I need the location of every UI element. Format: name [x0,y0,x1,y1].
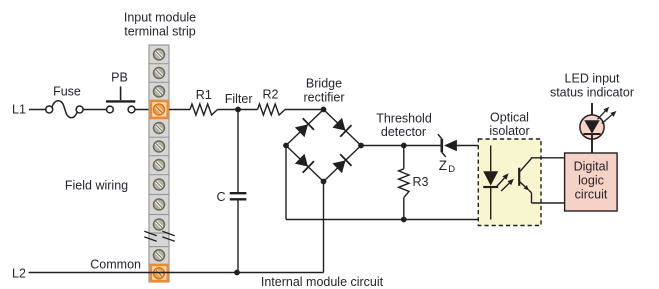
bridge diode D2 (top-right arm) [332,118,351,137]
svg-text:terminal strip: terminal strip [124,25,196,39]
wire PB to input terminal [135,109,159,111]
optical isolator dashed box [478,139,541,226]
svg-text:R1: R1 [196,88,212,102]
svg-text:rectifier: rectifier [304,90,345,104]
terminal strip break marks [144,231,174,241]
node R3 bottom junction [401,217,407,223]
svg-text:C: C [217,190,226,204]
svg-text:Threshold: Threshold [376,112,432,126]
node L2 [12,267,26,281]
svg-text:Digital: Digital [574,160,609,174]
svg-text:D: D [448,164,455,175]
svg-text:detector: detector [381,125,426,139]
wire emitter to logic box [532,202,565,204]
wire zener to opto LED [457,145,491,147]
svg-text:R3: R3 [413,175,429,189]
input terminal orange highlight [151,101,168,118]
svg-text:LED input: LED input [565,72,620,86]
terminal screw 5 [154,123,165,134]
node capacitor-common junction [234,270,240,276]
common terminal orange highlight [151,265,168,281]
bridge diode D3 (left-bottom arm) [295,154,314,173]
wire bridge bottom to L2 rail [323,182,325,273]
node R3 top junction [401,143,407,149]
phototransistor Q1 [519,158,531,203]
label Field wiring [65,179,128,193]
svg-text:status indicator: status indicator [550,86,634,100]
zener diode ZD [438,134,457,157]
label Common [90,258,141,272]
svg-text:Field wiring: Field wiring [65,179,128,193]
bridge node bottom [321,179,327,185]
bridge node top [321,107,327,113]
terminal screw 11 [154,250,165,261]
opto LED anode lead [490,146,492,172]
wire R1 to filter node [218,109,258,111]
svg-text:isolator: isolator [489,124,529,138]
label PB [111,70,128,84]
wire collector to logic box [531,157,565,160]
label Digital logic circuit [574,160,609,202]
bridge node right [358,143,364,149]
label Threshold detector [376,112,432,140]
terminal screw 9 [154,199,165,210]
label Fuse [53,85,81,99]
label Filter [225,92,253,106]
capacitor C bottom lead [237,200,239,272]
node L1 [12,103,26,117]
label Internal module circuit [261,275,384,289]
LED light arrow 2 [602,111,617,124]
label Input module terminal strip [124,11,196,39]
svg-text:Bridge: Bridge [306,77,342,91]
LED indicator cathode bar [584,133,601,135]
bridge diode D4 (bottom-right arm) [332,154,351,173]
LED indicator bottom lead [591,135,593,153]
svg-text:L2: L2 [12,267,26,281]
terminal screw 8 [154,179,165,190]
label R1 [196,88,212,102]
svg-text:Fuse: Fuse [53,85,81,99]
svg-text:Filter: Filter [225,92,253,106]
opto light arrow 2 [501,179,514,191]
label C [217,190,226,204]
terminal screw 2 [154,68,165,79]
svg-text:circuit: circuit [575,188,608,202]
svg-text:L1: L1 [12,103,26,117]
svg-text:Input module: Input module [124,11,196,25]
capacitor C top lead [237,110,239,193]
input terminal screw (L1) [154,104,165,115]
terminal screw 10 [154,219,165,230]
svg-text:PB: PB [111,70,128,84]
input module terminal strip body [149,45,169,282]
bridge diode D1 (left-top arm) [295,118,314,137]
push button PB [106,87,135,113]
opto light arrow 1 [497,173,509,186]
svg-text:Internal module circuit: Internal module circuit [261,275,384,289]
resistor R2 [258,104,286,115]
node Filter junction [235,107,241,113]
bridge node left [283,143,289,149]
wire internal bottom rail (left vertex to opto LED) [286,219,491,221]
LED light arrow 1 [598,107,610,119]
LED indicator triangle [584,120,599,133]
wire terminal to R1 [169,109,190,111]
resistor R3 [399,146,409,220]
resistor R1 [190,104,218,115]
capacitor C plates [230,193,247,199]
wire bridge right to threshold node [361,145,441,147]
wire fuse to PB [83,109,106,111]
svg-text:Optical: Optical [490,111,529,125]
terminal screw 1 [154,49,165,60]
wire bridge left vertex down [285,146,287,220]
bridge rectifier frame [286,110,361,182]
fuse [46,101,83,118]
wire L1 to fuse [29,109,46,111]
label ZD [439,158,456,175]
common terminal screw [154,268,165,279]
terminal screw 3 [154,86,165,97]
label R3 [413,175,429,189]
digital logic circuit box [565,153,618,211]
LED indicator top lead [591,103,593,120]
terminal screw 7 [154,160,165,171]
opto LED cathode lead [490,188,492,220]
label R2 [263,87,279,101]
svg-text:logic: logic [578,174,604,188]
svg-text:Z: Z [439,158,447,173]
wire L2 common rail [29,272,324,274]
wire R2 to bridge [285,109,324,111]
label LED input status indicator [550,72,634,100]
label Optical isolator [489,111,529,139]
svg-text:R2: R2 [263,87,279,101]
LED indicator circle [580,115,604,139]
terminal screw 6 [154,141,165,152]
svg-text:Common: Common [90,258,141,272]
opto LED [483,171,498,187]
label Bridge rectifier [304,77,345,105]
